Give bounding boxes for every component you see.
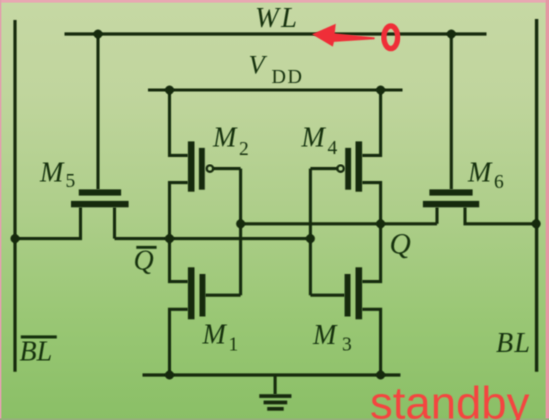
svg-text:M: M: [39, 158, 65, 189]
transistor M6 channel bar: [423, 201, 479, 207]
wire M1 source to ground rail: [170, 309, 188, 375]
ground symbol bar 2: [264, 401, 288, 405]
wire M5 right leg: [113, 207, 116, 238]
transistor M3 channel bar: [356, 267, 363, 319]
junction dot VDD / M2: [165, 86, 174, 95]
wire ground rail (bottom): [143, 373, 401, 376]
wire M2 gate lead: [213, 167, 241, 170]
svg-text:standby: standby: [370, 378, 530, 420]
svg-text:M: M: [301, 123, 327, 154]
svg-text:Q: Q: [390, 229, 411, 261]
svg-text:BL: BL: [20, 337, 53, 368]
wire M2 drain to node Qbar: [170, 183, 188, 239]
transistor M4 PMOS bubble: [337, 165, 343, 171]
wire M3 gate lead: [310, 294, 344, 297]
ground symbol bar 3: [267, 407, 284, 411]
svg-text:M: M: [202, 320, 228, 351]
transistor M4 channel bar: [356, 141, 363, 191]
svg-text:4: 4: [328, 138, 338, 159]
wire left inverter gate vertical (Q side): [239, 169, 242, 296]
transistor M2 PMOS bubble: [207, 165, 213, 171]
wire M1 gate lead: [205, 294, 240, 297]
red annotation arrow on WL: [312, 24, 375, 47]
svg-text:5: 5: [66, 171, 76, 192]
transistor M1 gate bar: [200, 274, 206, 317]
ground symbol stem: [274, 376, 277, 394]
wire M5 gate stem from WL: [96, 34, 99, 189]
wire M4 gate lead: [310, 167, 337, 170]
svg-text:M: M: [212, 123, 238, 154]
wire M6 right leg to BL: [465, 207, 537, 224]
junction dot node Qbar right gates: [306, 234, 315, 243]
wire M4 drain to node Q: [362, 183, 381, 224]
wire M3 drain to node Q: [362, 224, 381, 282]
svg-text:M: M: [467, 158, 493, 189]
svg-text:DD: DD: [272, 66, 304, 88]
junction dot ground rail / M3: [376, 371, 385, 380]
bottom darker edge: [0, 418, 549, 420]
svg-text:2: 2: [239, 139, 249, 160]
wire node Qbar horizontal line: [115, 237, 311, 240]
svg-text:Q: Q: [134, 246, 154, 277]
junction dot node Q right: [376, 219, 385, 228]
wire VDD rail: [148, 89, 403, 92]
wire M6 left leg: [435, 207, 438, 224]
svg-text:V: V: [249, 50, 268, 80]
wire right inverter gate vertical (Qbar side): [309, 169, 312, 296]
wire BLbar vertical bit line (left): [13, 20, 16, 372]
svg-text:BL: BL: [496, 328, 531, 359]
transistor M5 gate bar: [79, 189, 121, 195]
svg-text:M: M: [312, 320, 338, 351]
ground symbol bar 1: [259, 394, 291, 398]
junction dot WL / M5: [94, 30, 103, 39]
svg-text:1: 1: [229, 335, 239, 356]
top pink border strip: [0, 0, 549, 3]
junction dot ground rail / M1: [165, 371, 174, 380]
svg-text:WL: WL: [255, 3, 299, 34]
wire M4 source to VDD: [362, 90, 381, 155]
wire WL horizontal line: [65, 32, 487, 35]
junction dot node Qbar left: [165, 234, 174, 243]
junction dot BLbar / M5: [11, 234, 20, 243]
transistor M4 gate bar: [345, 148, 351, 190]
wire node Q horizontal line: [241, 222, 437, 225]
transistor M2 gate bar: [199, 148, 205, 190]
junction dot BL / M6: [532, 219, 541, 228]
transistor M6 gate bar: [429, 189, 472, 195]
wire BL vertical bit line (right): [535, 19, 538, 372]
wire M6 gate stem from WL: [450, 34, 453, 189]
wire M5 left leg to BLbar: [15, 207, 81, 238]
wire M1 drain to node Qbar: [170, 239, 188, 282]
junction dot node Q left gates: [236, 219, 245, 228]
transistor M2 channel bar: [188, 141, 195, 191]
junction dot VDD / M4: [376, 86, 385, 95]
wire M2 source to VDD: [170, 90, 188, 155]
svg-text:6: 6: [494, 172, 504, 193]
transistor M1 channel bar: [188, 267, 195, 319]
svg-text:3: 3: [342, 335, 352, 356]
red annotation 0 on WL: [384, 26, 398, 49]
right pink border strip: [546, 0, 549, 420]
junction dot WL / M6: [447, 30, 456, 39]
left pink border strip: [0, 0, 1, 420]
transistor M3 gate bar: [345, 274, 351, 317]
wire M3 source to ground rail: [362, 309, 381, 375]
transistor M5 channel bar: [71, 201, 129, 207]
